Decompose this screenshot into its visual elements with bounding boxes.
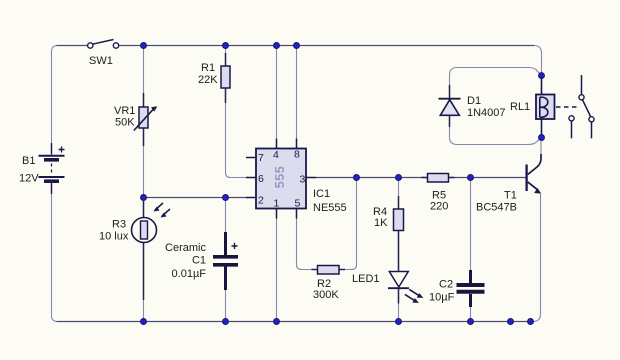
svg-text:Ceramic: Ceramic (165, 242, 206, 254)
svg-text:2: 2 (258, 195, 264, 207)
svg-text:6: 6 (258, 173, 264, 185)
junction node at R1 top (223, 43, 229, 49)
svg-text:50K: 50K (115, 117, 135, 129)
wire top rail from SW1 to right corner (119, 45, 535, 47)
wire pin1 to bottom rail (276, 209, 278, 322)
svg-text:22K: 22K (198, 74, 218, 86)
svg-text:BC547B: BC547B (476, 202, 517, 214)
wire pin4 riser (276, 46, 278, 149)
wire pin8 riser (296, 46, 298, 149)
wire R4 branch down (398, 178, 400, 210)
wire bottom rail left segment (57, 321, 144, 323)
wire D1 loop top (450, 68, 542, 97)
wire pin2 horizontal from node to IC pin 2 (144, 197, 247, 199)
svg-text:D1: D1 (467, 95, 481, 107)
svg-text:12V: 12V (19, 173, 39, 185)
wire left rail bottom vertical (52, 183, 58, 322)
wire top rail left segment to SW1 (57, 45, 88, 47)
svg-text:1K: 1K (374, 217, 388, 229)
capacitor C2 (457, 270, 485, 307)
svg-text:4: 4 (273, 149, 279, 161)
wire pin3 to R5 (316, 177, 428, 179)
svg-text:300K: 300K (313, 289, 339, 301)
wire C1 bottom to bottom rail (225, 290, 227, 322)
wire C2 branch down (470, 178, 472, 271)
junction node bottom rail LED1 (396, 319, 402, 325)
svg-text:LED1: LED1 (352, 273, 380, 285)
svg-text:RL1: RL1 (510, 101, 530, 113)
svg-text:10 lux: 10 lux (99, 231, 129, 243)
svg-text:VR1: VR1 (114, 105, 135, 117)
wire bottom rail main (144, 321, 534, 323)
wire D1 loop bottom (450, 116, 542, 145)
junction node bottom rail pin1 (274, 319, 280, 325)
wire LED1 bottom to bottom rail (398, 288, 400, 322)
junction node R4 top (396, 175, 402, 181)
svg-text:220: 220 (430, 201, 448, 213)
IC1 NE555 (246, 139, 316, 219)
svg-text:C1: C1 (192, 255, 206, 267)
wire C1 branch down from pin2 wire (225, 198, 227, 233)
svg-text:0.01µF: 0.01µF (172, 268, 207, 280)
junction node bottom rail aux1 (508, 319, 514, 325)
svg-text:SW1: SW1 (89, 55, 113, 67)
junction node VR1/R3/pin2 (141, 195, 147, 201)
resistor R1 (221, 53, 230, 103)
wire VR1 branch from top rail (143, 46, 145, 107)
wire R4 bottom to LED1 (398, 231, 400, 270)
junction node pin3/R2 riser (354, 175, 360, 181)
wire top-right corner down to relay (534, 46, 542, 76)
junction node bottom rail C1 (223, 319, 229, 325)
wire pin5 down and right to R2 (297, 209, 318, 270)
svg-text:10µF: 10µF (429, 292, 455, 304)
wire left rail vertical (52, 46, 58, 155)
svg-text:T1: T1 (504, 190, 517, 202)
svg-text:C2: C2 (439, 279, 453, 291)
svg-text:IC1: IC1 (313, 188, 330, 200)
junction node at pin8 top (294, 43, 300, 49)
wire R3 bottom to bottom rail (143, 243, 145, 322)
relay contacts (569, 75, 594, 138)
junction node relay top (539, 73, 545, 79)
wire VR1 bottom to node (143, 129, 145, 198)
junction node C2 top (468, 175, 474, 181)
wire collector riser to relay node (540, 138, 542, 155)
junction node at pin4 top (274, 43, 280, 49)
svg-text:8: 8 (294, 148, 300, 160)
svg-text:555: 555 (273, 166, 287, 188)
junction node bottom rail aux2 (528, 319, 534, 325)
svg-text:1N4007: 1N4007 (467, 107, 506, 119)
relay contact linkage (dashed) (556, 106, 578, 108)
transistor T1 (527, 154, 542, 194)
diode D1 (439, 85, 461, 127)
potentiometer VR1 (134, 93, 158, 146)
wire C2 bottom to bottom rail (470, 307, 472, 322)
svg-text:1: 1 (274, 197, 280, 209)
resistor R5 (422, 174, 455, 183)
svg-text:3: 3 (300, 174, 306, 186)
battery B1 (39, 143, 65, 194)
relay RL1 (536, 76, 555, 138)
svg-text:B1: B1 (22, 155, 35, 167)
wire R1 bottom down then right to IC pin 6 (226, 88, 247, 178)
svg-text:R1: R1 (201, 62, 215, 74)
svg-text:NE555: NE555 (313, 202, 347, 214)
LDR R3 (132, 200, 171, 300)
junction node bottom rail C2 (468, 319, 474, 325)
svg-text:5: 5 (295, 197, 301, 209)
wire bottom-right corner up to emitter (533, 194, 541, 322)
resistor R2 (312, 266, 346, 275)
capacitor C1 (213, 232, 238, 290)
junction node relay bottom (539, 135, 545, 141)
resistor R4 (394, 196, 404, 247)
wire R2 right then riser up to pin3 line (339, 178, 357, 270)
junction node bottom rail R3 (141, 319, 147, 325)
junction node C1 top (223, 195, 229, 201)
switch SW1 (88, 40, 119, 49)
LED LED1 (388, 247, 423, 304)
wire R1 branch from top rail (225, 46, 227, 67)
svg-text:7: 7 (258, 152, 264, 164)
junction node at VR1 top (141, 43, 147, 49)
svg-text:R3: R3 (112, 219, 126, 231)
wire R5 to transistor base (449, 177, 527, 179)
wire node to R3 top (143, 198, 145, 218)
